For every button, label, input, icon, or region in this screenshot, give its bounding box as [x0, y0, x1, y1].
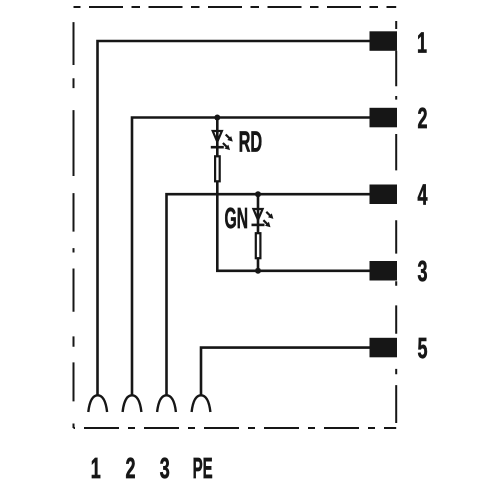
svg-text:2: 2 — [418, 103, 428, 135]
svg-text:RD: RD — [239, 126, 263, 158]
wire pinPE to terminal 5 — [201, 348, 370, 395]
terminal block 4 — [370, 185, 398, 205]
svg-text:3: 3 — [418, 256, 428, 288]
terminal block 5 — [370, 338, 398, 358]
enclosure dash-dot border: right — [395, 7, 397, 428]
svg-text:4: 4 — [418, 180, 428, 212]
node junction on wire 3 (GN bottom) — [255, 268, 261, 274]
enclosure dash-dot border: left — [73, 7, 75, 428]
wire pin1 to terminal 1 — [98, 41, 371, 395]
LED RD: triangle — [213, 131, 222, 142]
wire pin3 to terminal 4 — [167, 194, 371, 394]
svg-text:GN: GN — [225, 203, 249, 235]
svg-text:5: 5 — [418, 333, 428, 365]
pin contact 3 — [157, 395, 176, 412]
LED RD: cathode bar — [211, 146, 224, 149]
wire RD branch down and to terminal 3 — [217, 118, 370, 271]
wire pin2 to terminal 2 — [132, 118, 370, 395]
pin contact 2 — [123, 395, 142, 412]
node junction on wire 4 (GN branch) — [255, 191, 261, 197]
wire GN branch vertical — [257, 194, 260, 271]
svg-text:1: 1 — [91, 453, 101, 485]
enclosure dash-dot border: bottom — [74, 427, 397, 429]
svg-text:3: 3 — [160, 453, 170, 485]
svg-text:PE: PE — [193, 453, 213, 485]
pin contact PE — [192, 395, 211, 412]
LED GN: triangle — [253, 209, 262, 220]
pin contact 1 — [88, 395, 107, 412]
svg-text:1: 1 — [417, 28, 427, 60]
LED RD: emission arrows — [226, 135, 233, 142]
LED GN: emission arrows — [266, 212, 273, 219]
node junction on wire 2 (RD branch) — [214, 115, 220, 121]
resistor R-GN — [256, 233, 261, 258]
terminal block 3 — [370, 261, 398, 281]
terminal block 2 — [370, 108, 398, 128]
svg-text:2: 2 — [126, 453, 136, 485]
LED GN: cathode bar — [252, 224, 265, 227]
resistor R-RD — [215, 156, 220, 181]
terminal block 1 — [370, 31, 398, 51]
enclosure dash-dot border: top — [74, 6, 397, 8]
